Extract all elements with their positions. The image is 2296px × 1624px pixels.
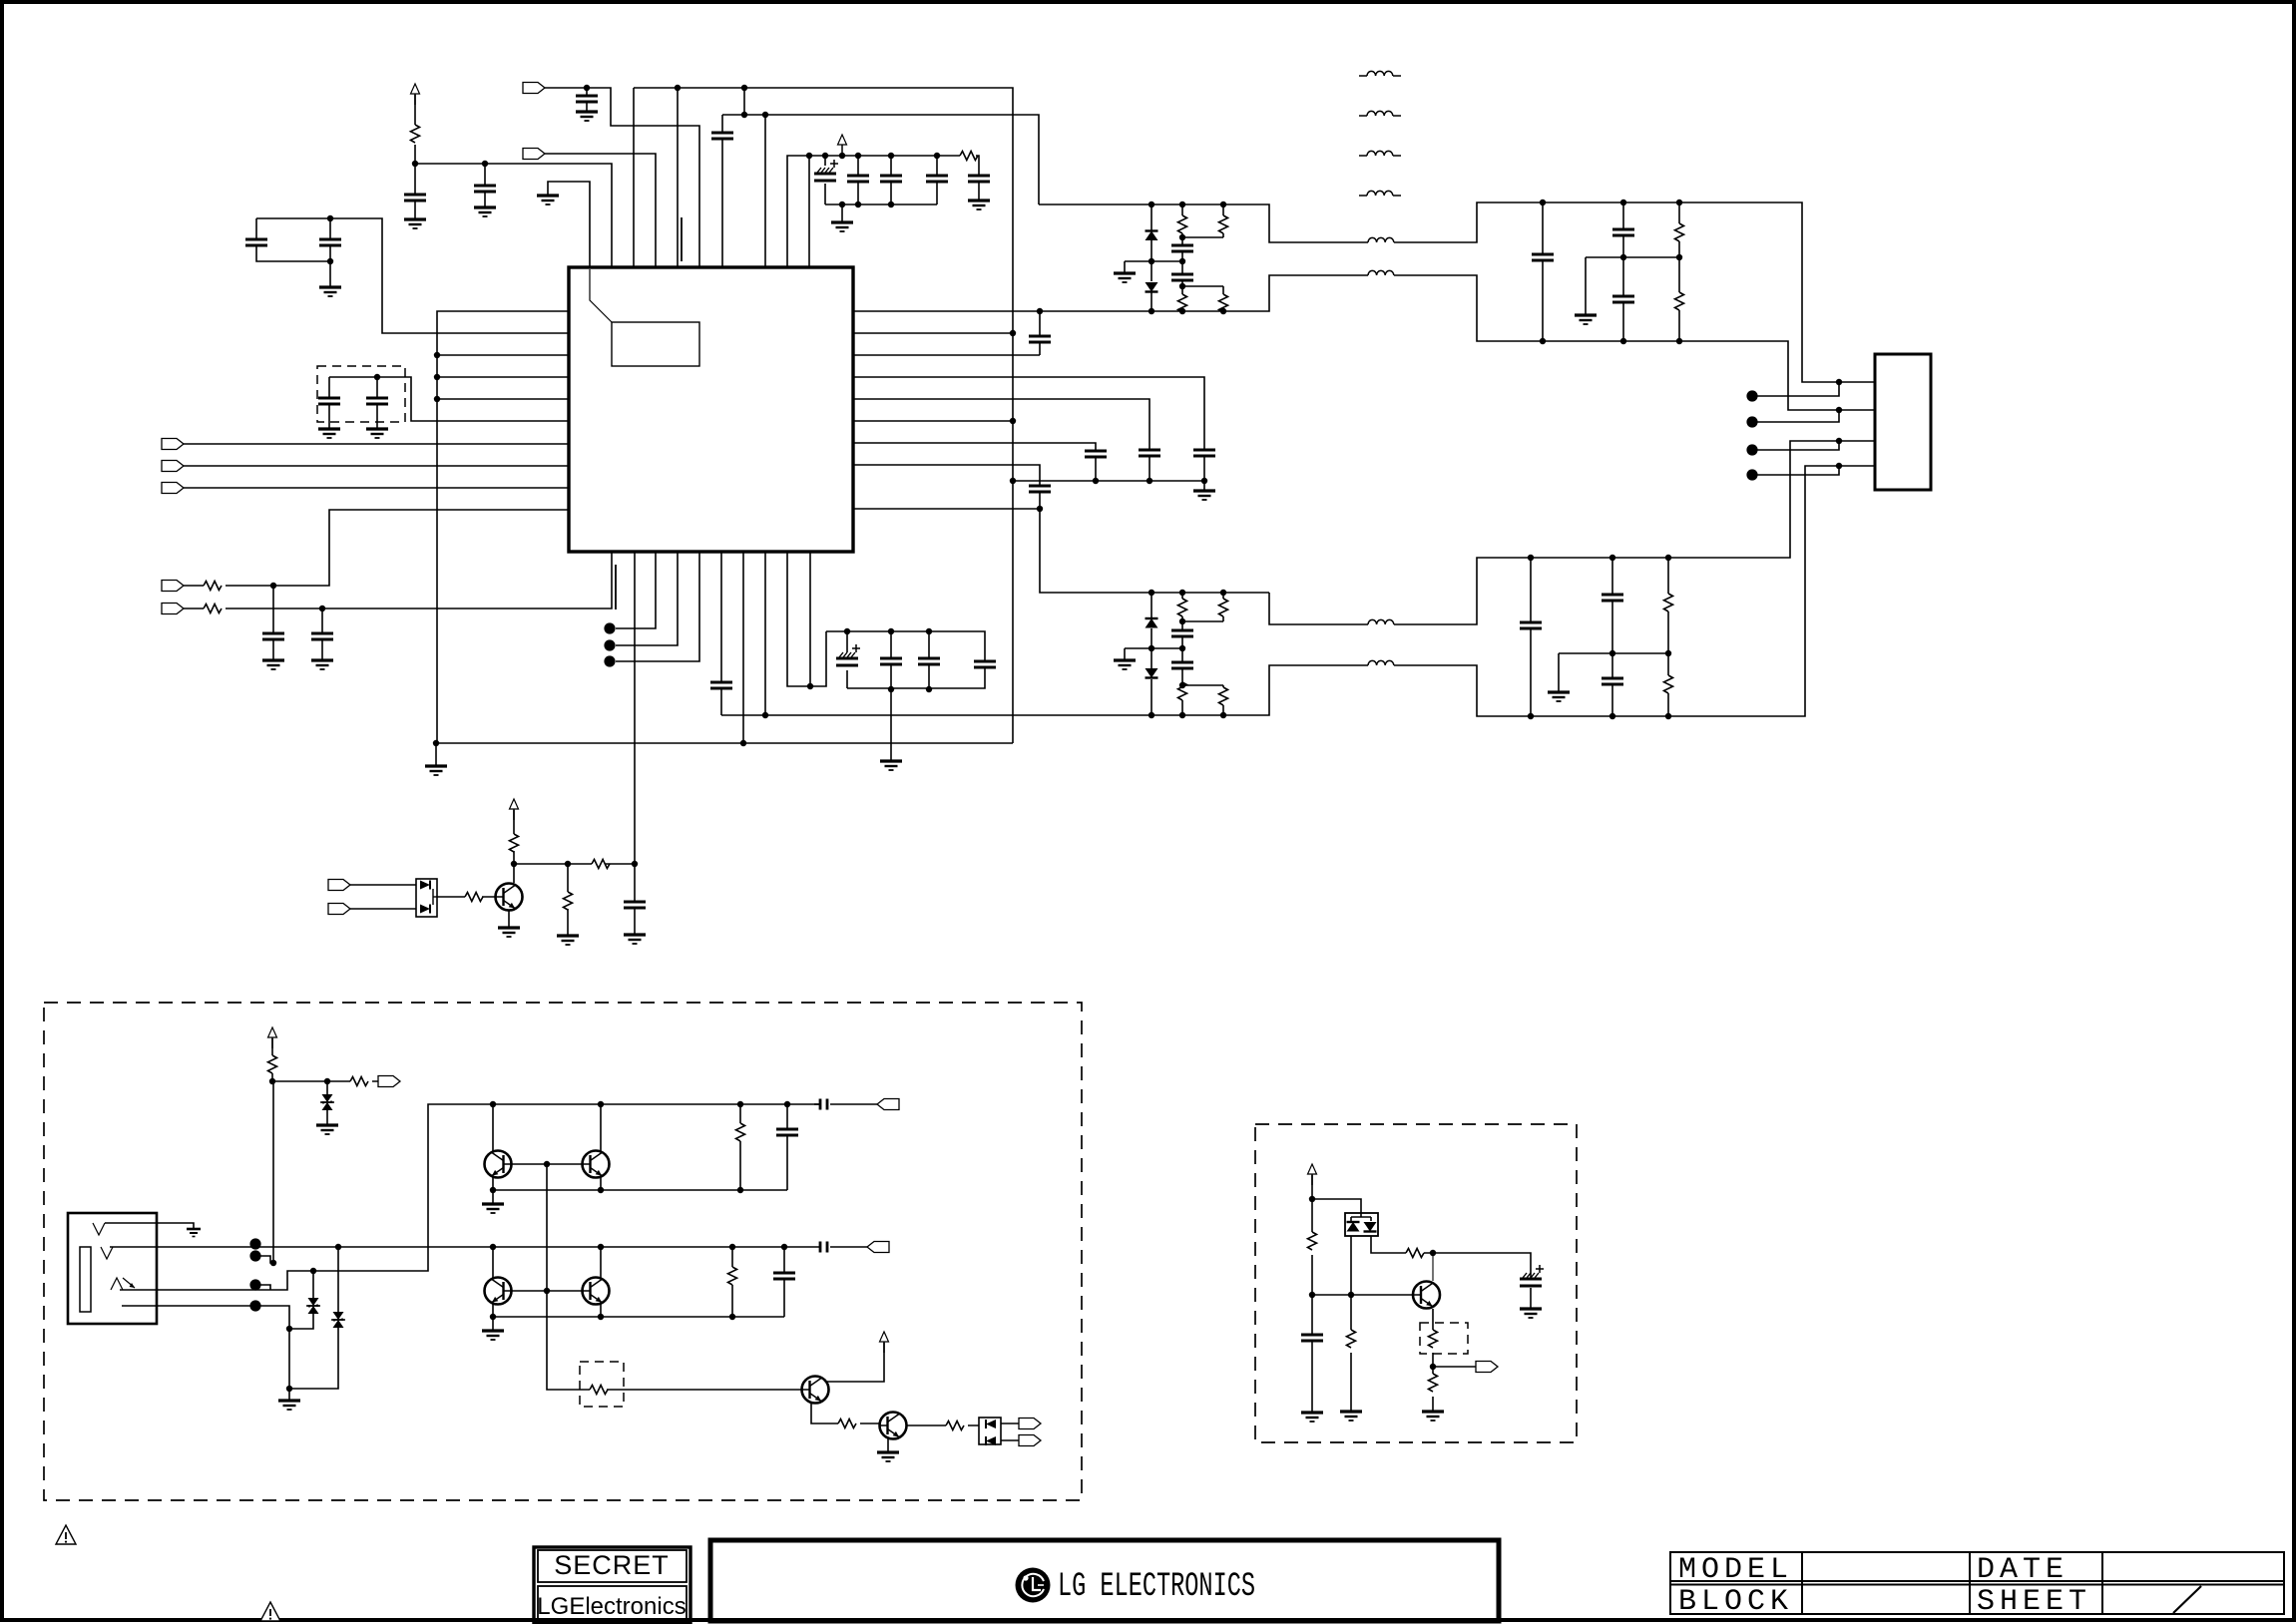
output flag [867,1242,889,1253]
transistor Q4 [485,1278,512,1305]
wire VCC resistor node [415,95,612,267]
wire pin334 [853,332,1013,334]
capacitor C34 [1520,622,1542,628]
junction [1037,506,1043,512]
wire rail205 bottom [825,203,937,205]
wire base column [547,1164,802,1390]
big pad dot [249,1300,260,1311]
capacitor C2 [474,186,496,192]
big pad dot [604,655,615,666]
capacitor C15 [311,633,333,639]
junction [433,740,439,746]
junction [598,1187,604,1193]
resistor R30 [1406,1249,1424,1258]
junction [1620,200,1626,205]
wire link623 [1182,620,1223,622]
resistor R14 [1178,682,1187,700]
jack plug bar [80,1247,91,1312]
ground [278,1401,300,1410]
junction [269,1078,275,1084]
svg-text:SHEET: SHEET [1977,1585,2091,1619]
capacitor C23 [1193,450,1215,456]
wire pair1 base link [512,1163,583,1165]
junction [1220,712,1226,718]
junction [1148,712,1154,718]
capacitor C9 [968,176,990,182]
LG logo main box [710,1540,1499,1621]
series cap out2 [820,1242,827,1253]
wire Q5 collector [825,1343,884,1382]
wire link655 [1559,653,1668,692]
wire collector drop [1432,1253,1434,1281]
junction [286,1326,292,1332]
junction [729,1314,735,1320]
resistor R17 [1675,223,1684,241]
junction [1620,254,1626,260]
wire cap 893 [890,156,892,204]
jack arrowhead [130,1283,136,1288]
junction [1148,645,1154,651]
svg-text:LGElectronics: LGElectronics [537,1593,686,1620]
junction [434,396,440,402]
series cap out1 [820,1099,827,1110]
ground [318,429,340,438]
big pad dot [1746,416,1757,427]
ground [1548,692,1570,701]
capacitor C37 [776,1129,798,1135]
warning triangle [56,1525,76,1544]
wire out2 coupling [830,1246,867,1248]
wire jack gnd [105,1223,194,1229]
wire flagA [344,884,416,886]
wire pin745 [742,552,744,743]
ground small jack [187,1229,201,1237]
junction [1528,713,1534,719]
connector flag [162,461,184,472]
junction [327,258,333,264]
junction [490,1101,496,1107]
big pad dot [1746,469,1757,480]
junction [598,1244,604,1250]
junction [1179,618,1185,624]
wire diode box internal [1351,1217,1371,1221]
transistor Q8 [1413,1282,1440,1309]
wire col1534 [1530,558,1532,716]
junction [1540,200,1546,205]
spare stub below IC [615,565,617,609]
transistor Q6 [802,1377,829,1404]
wire Q5 emitter [811,1403,880,1423]
output flag [877,1099,899,1110]
resistor R10 [1178,294,1187,312]
capacitor C19 [918,658,940,664]
connector flag [1019,1419,1041,1429]
capacitor C13 [366,398,388,404]
wire gnd stem 844 [841,204,843,222]
wire link258 [1586,257,1679,315]
resistor R21 [268,1055,277,1073]
junction [855,153,861,159]
wire rail205 to filter [1039,203,1875,382]
wire col1546 [1542,203,1544,341]
ground [311,660,333,669]
wire pin679 [677,88,679,267]
LG logo circle [1016,1568,1051,1603]
junction [327,215,333,221]
resistor R2 [960,152,978,161]
wire y717 [721,466,1875,716]
resistor R32 [1429,1374,1438,1392]
resistor R13 [1178,599,1187,616]
wire cap 274 [272,586,274,660]
capacitor C14 [262,633,284,639]
wire diode col 1154 [1150,204,1152,311]
wire emitter rail1 [493,1189,787,1191]
wire col1616 [1611,558,1613,716]
wire res734 [731,1247,733,1317]
wire pin635 [633,88,635,267]
junction [374,374,380,380]
junction [1147,478,1152,484]
capacitor C22 [1029,336,1051,342]
capacitor C30 [1171,662,1193,668]
junction [1148,258,1154,264]
junction [270,1260,276,1266]
resistor R26 [838,1420,856,1428]
big pad dot [1746,444,1757,455]
resistor R16 [1219,687,1228,705]
capacitor C16 [710,682,732,688]
resistor R6 [592,860,610,869]
junction [1528,555,1534,561]
wire tvs328 [326,1081,328,1125]
wire pin746 drop [743,88,745,115]
junction [1179,234,1185,240]
junction [1665,650,1671,656]
capacitor C39 [1301,1335,1323,1341]
wire dcap2 [376,377,378,429]
junction [1179,308,1185,314]
small dashed box [580,1362,624,1407]
capacitor C28 [1171,274,1193,280]
junction [319,606,325,611]
warning triangle [260,1602,280,1621]
wire pin679 [616,552,678,645]
sheet slash [2173,1586,2201,1613]
wire link650 [1125,648,1182,660]
polarized capacitor C40 [1520,1265,1544,1286]
junction [888,153,894,159]
ground [1340,1412,1362,1421]
wire cap 323 [321,609,323,660]
junction [844,628,850,634]
junction [1430,1250,1436,1256]
junction [839,153,845,159]
wire w4 sleeve [122,1306,289,1401]
svg-text:BLOCK: BLOCK [1678,1585,1793,1619]
diode down [1364,1222,1377,1232]
right dashed box [1255,1124,1577,1442]
resistor R29 [1347,1330,1356,1348]
resistor R4 [204,605,222,613]
junction [1179,283,1185,289]
wire cap786 [783,1247,785,1317]
wire col1627 [1622,203,1624,341]
junction [806,153,812,159]
tvs diode pair Z1 [320,1094,334,1110]
ground [1422,1412,1444,1421]
junction [1620,338,1626,344]
power arrow VCC2 [838,135,847,156]
capacitor C20 [974,661,996,667]
capacitor C21 [624,902,646,908]
wire pair2 base link [512,1290,583,1292]
junction [822,153,828,159]
ground [1520,1309,1542,1318]
MODEL/BLOCK table [1670,1552,2284,1614]
ground [1193,491,1215,500]
resistor R11 [1219,215,1228,233]
wire w2 tip bus [110,1246,820,1248]
diode D3 [1146,618,1158,628]
ground [482,1204,504,1213]
junction [632,861,638,867]
junction [1179,712,1185,718]
wire chan lower [1269,441,1875,624]
capacitor C24 [1139,450,1160,456]
junction [1430,1364,1436,1370]
transistor Q3 [583,1151,610,1178]
junction [762,712,768,718]
junction [511,861,517,867]
wire Q6 emitter [887,1438,889,1452]
wire col1185 [1181,593,1183,715]
ground [576,112,598,121]
wire pcap gnd [1530,1288,1532,1309]
inductor L7 floating [1367,151,1393,156]
wire node1084 [272,1080,378,1082]
wire pcap849 [846,631,848,688]
junction [926,628,932,634]
wire cap+gnd x588 [586,88,588,112]
resistor R25 [590,1386,608,1395]
opto diodes left [986,1420,996,1445]
wire col1226 [1222,204,1224,294]
wire bus745 [436,742,1013,744]
capacitor C35 [1602,595,1623,601]
wire pin356 [437,354,569,356]
big pad dot [249,1238,260,1249]
wire pin422 [853,420,1013,422]
resistor R9 [1178,215,1187,233]
junction [1179,590,1185,596]
junction [1609,713,1615,719]
wire diode right leg [1371,1236,1531,1278]
power arrow VCC5 [880,1332,889,1353]
ground [1301,1413,1323,1421]
wire conn y467 [184,465,569,467]
ground [880,761,902,770]
wire col1672 [1667,558,1669,716]
resistor R1 [411,125,420,143]
wire cap635 [634,864,636,935]
inductor L4 [1368,660,1394,665]
svg-text:MODEL: MODEL [1678,1553,1793,1587]
inductor L2 [1368,270,1394,275]
capacitor C27 [1171,245,1193,251]
junction [888,628,894,634]
wire conn y587 [184,510,569,586]
jack switch mark2 [101,1247,113,1259]
wire cap leads x486 [484,164,486,207]
diode D4 [1146,668,1158,678]
big pad dot [1746,390,1757,401]
ground [557,936,579,945]
junction [490,1244,496,1250]
svg-text:SECRET: SECRET [554,1550,670,1580]
junction [482,161,488,167]
junction [286,1386,292,1392]
tvs diode pair Z2 [306,1298,320,1314]
big pad dot [249,1279,260,1290]
ground [624,935,646,944]
junction [1676,338,1682,344]
wire gnd stem [492,1190,494,1204]
junction [490,1187,496,1193]
resistor R8 [465,893,483,902]
wire conn y610 [184,552,612,609]
junction [324,1078,330,1084]
wire pin378 [437,376,569,378]
junction [839,202,845,207]
wire r569 [567,864,569,936]
wire dcap1 [328,377,330,429]
wire flagB [344,908,416,910]
ground [425,766,447,775]
wire gnd stem893 [890,689,892,761]
connector CN1 flag [523,83,545,94]
inductor L8 floating [1367,191,1393,196]
op-amp U1 main IC body [569,267,853,552]
wire col1683 [1678,203,1680,341]
jack switch mark1 [93,1223,105,1235]
connector flag [328,904,350,915]
junction [490,1314,496,1320]
wire cap893 [890,631,892,689]
wire pcap 827 [824,156,826,204]
junction [544,1161,550,1167]
junction [762,112,768,118]
wire res1354 lower [1350,1295,1352,1412]
wire cluster rail633 [826,631,985,688]
ground [831,222,853,231]
junction [740,740,746,746]
junction [598,1314,604,1320]
junction [1179,682,1185,688]
junction [412,161,418,167]
wire ir2 flags [1001,1423,1019,1440]
wire pair1 collectors [493,1104,601,1153]
junction [1201,478,1207,484]
capacitor C4 on pin723 [711,133,733,139]
transistor Q2 [485,1151,512,1178]
wire cap 331 [329,218,331,287]
wire pin811 [808,156,810,267]
wire pin767 [764,552,766,715]
wire pin789 [787,552,826,686]
wire res742 [739,1104,741,1190]
capacitor C29 [1171,630,1193,636]
wire pin378 [853,377,1204,481]
wire y482 [1013,480,1204,482]
wire pin636 long [634,552,636,864]
junction [270,583,276,589]
diode up [1347,1222,1360,1232]
wire gnd stem437 [435,743,437,766]
junction [565,861,571,867]
junction [1148,202,1154,207]
svg-text:LG ELECTRONICS: LG ELECTRONICS [1058,1568,1255,1606]
wire pin510 [853,508,1040,510]
junction [934,153,940,159]
capacitor C18 [880,658,902,664]
wire pair2 collectors [493,1247,601,1280]
connector flag [162,439,184,450]
junction [741,112,747,118]
junction [1010,478,1016,484]
junction [1676,200,1682,205]
junction [310,1268,316,1274]
transistor Q7 [880,1413,907,1439]
ground [262,660,284,669]
capacitor C36 [1602,678,1623,684]
inductor L1 [1368,237,1394,242]
ground [968,201,990,209]
capacitor C38 [773,1273,795,1279]
wire emitter [508,911,510,928]
wire cap leads x416 [414,164,416,219]
junction [1148,590,1154,596]
wire pad2 [1756,410,1839,422]
junction [434,374,440,380]
ground [404,219,426,228]
resistor R15 [1219,599,1228,616]
junction [1309,1292,1315,1298]
wire diode left leg [1350,1236,1352,1295]
resistor R3 [204,582,222,591]
capacitor C12 [318,398,340,404]
wire col1226 [1222,593,1224,715]
connector flag [162,581,184,592]
junction [1836,379,1842,385]
power arrow VCC [411,84,420,105]
wire bullet2 jog [260,1256,273,1263]
SECRET box [534,1547,690,1623]
wire pin723 cap [720,552,722,715]
diode D1 [1146,231,1158,241]
ground [316,1125,338,1134]
wire cap931 [928,631,930,689]
wire pin591 to ground [548,182,590,267]
wire [545,154,656,267]
junction [737,1187,743,1193]
connector J2 box [1875,354,1931,490]
ground [537,196,559,204]
ground [498,928,520,937]
capacitor C26 [1029,486,1051,492]
wire link287 [1182,285,1223,287]
junction [598,1101,604,1107]
